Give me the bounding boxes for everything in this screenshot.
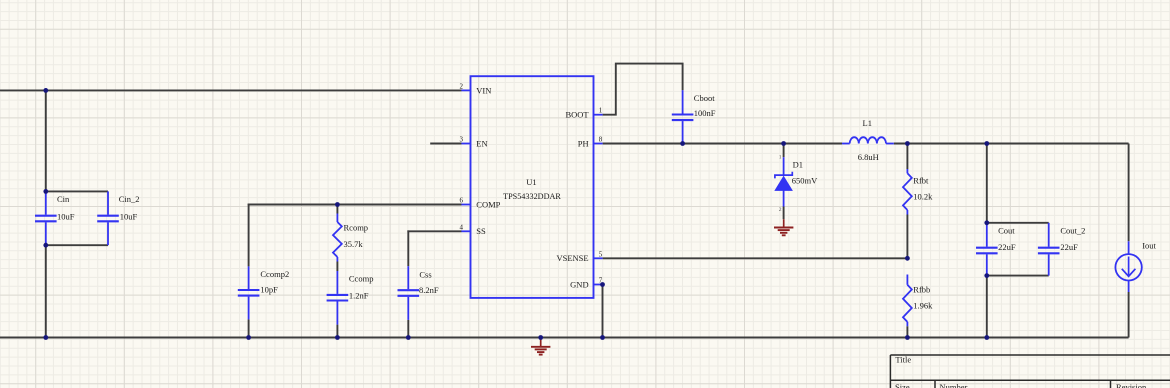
junction Ccomp gnd bbox=[335, 335, 340, 340]
svg-text:VIN: VIN bbox=[476, 85, 491, 95]
svg-text:Size: Size bbox=[895, 382, 910, 388]
svg-text:Css: Css bbox=[419, 270, 431, 280]
junction Cin bottom bbox=[43, 243, 48, 248]
wire EN wire bbox=[430, 143, 461, 145]
svg-text:2: 2 bbox=[779, 207, 782, 213]
svg-text:10uF: 10uF bbox=[57, 211, 75, 221]
junction Cout gnd bbox=[984, 335, 989, 340]
pin 6 COMP bbox=[460, 197, 501, 210]
svg-text:1: 1 bbox=[599, 107, 603, 115]
capacitor Cin_2 bbox=[97, 191, 139, 245]
Iout top wire bbox=[1128, 144, 1130, 242]
wire VIN input rail bbox=[0, 89, 462, 91]
svg-text:VSENSE: VSENSE bbox=[556, 253, 588, 263]
capacitor Ccomp bbox=[327, 271, 374, 325]
junction Cin top bbox=[43, 189, 48, 194]
wire Cout top link bbox=[987, 222, 1049, 224]
ground D1 ground bbox=[774, 219, 793, 235]
svg-text:Iout: Iout bbox=[1142, 240, 1156, 250]
pin 8 PH bbox=[578, 136, 603, 149]
wire Rfbt top stub bbox=[906, 144, 908, 170]
wire Rfbb bottom wire bbox=[906, 326, 908, 337]
wire PH rail right bbox=[894, 143, 1129, 145]
svg-text:10pF: 10pF bbox=[260, 284, 278, 294]
svg-text:Ccomp2: Ccomp2 bbox=[260, 269, 289, 279]
capacitor Cin bbox=[35, 191, 75, 245]
resistor Rfbb bbox=[903, 275, 933, 327]
wire PH rail left bbox=[603, 143, 842, 145]
svg-text:Cin: Cin bbox=[57, 194, 70, 204]
svg-text:COMP: COMP bbox=[476, 199, 500, 209]
svg-text:22uF: 22uF bbox=[998, 242, 1016, 252]
svg-text:L1: L1 bbox=[863, 118, 872, 128]
wire GND drop bbox=[602, 285, 604, 338]
wire VSENSE wire bbox=[603, 257, 908, 259]
svg-text:GND: GND bbox=[570, 279, 588, 289]
wire Cout bottom link bbox=[987, 275, 1049, 277]
svg-text:Rfbb: Rfbb bbox=[913, 284, 930, 294]
ground rail ground bbox=[531, 339, 550, 355]
svg-text:BOOT: BOOT bbox=[565, 110, 589, 120]
svg-text:Number: Number bbox=[940, 382, 968, 388]
junction Css gnd bbox=[406, 335, 411, 340]
wire Ccomp bottom wire bbox=[336, 325, 338, 338]
capacitor Cout bbox=[976, 224, 1016, 276]
junction D1-PH bbox=[781, 141, 786, 146]
svg-text:Ccomp: Ccomp bbox=[349, 274, 374, 284]
diode D1 650mV schottky bbox=[775, 155, 818, 214]
wire SS drop bbox=[407, 230, 409, 266]
junction Rcomp tap bbox=[335, 202, 340, 207]
junction Cout-PH bbox=[984, 141, 989, 146]
inductor L1 6.8uH bbox=[842, 118, 894, 162]
junction rail gnd sym bbox=[538, 335, 543, 340]
wire D1 top stub bbox=[783, 144, 785, 158]
wire input drop vertical bbox=[45, 90, 47, 191]
junction Cout top bbox=[984, 220, 989, 225]
svg-text:8.2nF: 8.2nF bbox=[419, 285, 439, 295]
svg-text:EN: EN bbox=[476, 138, 487, 148]
svg-text:3: 3 bbox=[460, 136, 464, 144]
wire Rfbt-VSENSE link bbox=[906, 215, 908, 259]
Iout bottom wire bbox=[1128, 292, 1130, 338]
junction Rfbb gnd bbox=[905, 335, 910, 340]
junction Ccomp2 gnd bbox=[246, 335, 251, 340]
svg-text:Title: Title bbox=[895, 355, 911, 365]
svg-text:6: 6 bbox=[460, 197, 464, 205]
wire D1 bottom stub bbox=[783, 207, 785, 220]
wire SS wire bbox=[407, 230, 461, 232]
junction Cout bottom bbox=[984, 273, 989, 278]
svg-text:5: 5 bbox=[599, 250, 603, 258]
wire Cout branch drop bbox=[986, 144, 988, 223]
svg-text:22uF: 22uF bbox=[1060, 242, 1078, 252]
svg-text:10.2k: 10.2k bbox=[913, 192, 933, 202]
wire Css bottom wire bbox=[407, 320, 409, 338]
svg-text:4: 4 bbox=[460, 223, 464, 231]
svg-text:2: 2 bbox=[460, 82, 464, 90]
pin 3 EN bbox=[460, 136, 488, 149]
op-amp U1 TPS54332DDAR body bbox=[471, 76, 594, 298]
junction GND rail bbox=[600, 335, 605, 340]
wire ground rail bbox=[0, 337, 1129, 339]
wire Cin bottom link bbox=[46, 244, 108, 246]
svg-text:1: 1 bbox=[779, 155, 782, 161]
wire input ground drop bbox=[45, 245, 47, 337]
svg-text:100nF: 100nF bbox=[694, 108, 716, 118]
junction VSENSE tap bbox=[905, 256, 910, 261]
wire Rcomp-Ccomp link bbox=[336, 262, 338, 272]
svg-text:TPS54332DDAR: TPS54332DDAR bbox=[503, 192, 561, 201]
junction input tap bbox=[43, 88, 48, 93]
svg-text:Cout: Cout bbox=[998, 225, 1015, 235]
svg-text:8: 8 bbox=[599, 136, 603, 144]
svg-text:D1: D1 bbox=[793, 160, 803, 170]
wire Cin top link bbox=[46, 190, 108, 192]
pin 2 VIN bbox=[460, 82, 492, 95]
svg-text:Rcomp: Rcomp bbox=[344, 222, 369, 232]
svg-text:10uF: 10uF bbox=[120, 211, 138, 221]
title block bbox=[890, 355, 1170, 388]
svg-text:35.7k: 35.7k bbox=[344, 239, 364, 249]
junction L1 out bbox=[905, 141, 910, 146]
svg-text:Revision: Revision bbox=[1116, 382, 1147, 388]
svg-text:650mV: 650mV bbox=[792, 175, 818, 185]
svg-text:Rfbt: Rfbt bbox=[913, 175, 929, 185]
wire Ccomp2 bottom wire bbox=[248, 319, 250, 337]
junction GND pin bbox=[600, 282, 605, 287]
resistor Rfbt bbox=[903, 169, 933, 215]
resistor Rcomp bbox=[333, 214, 368, 262]
capacitor Ccomp2 bbox=[238, 266, 289, 319]
svg-text:Cboot: Cboot bbox=[694, 93, 715, 103]
wire Rcomp stub bbox=[336, 205, 338, 214]
pin 4 SS bbox=[460, 223, 487, 236]
svg-text:PH: PH bbox=[578, 138, 589, 148]
svg-text:1.2nF: 1.2nF bbox=[349, 290, 369, 300]
pin 1 BOOT bbox=[565, 107, 602, 120]
BOOT wire path bbox=[603, 64, 683, 115]
junction Cboot-PH bbox=[680, 141, 685, 146]
svg-text:SS: SS bbox=[476, 226, 486, 236]
capacitor Css bbox=[398, 266, 439, 320]
wire COMP wire bbox=[248, 204, 462, 206]
wire Cout ground wire bbox=[986, 276, 988, 338]
svg-text:U1: U1 bbox=[526, 177, 536, 187]
svg-text:6.8uH: 6.8uH bbox=[858, 152, 879, 162]
capacitor Cout_2 bbox=[1038, 223, 1086, 276]
svg-text:1.96k: 1.96k bbox=[913, 301, 933, 311]
svg-text:Cout_2: Cout_2 bbox=[1060, 225, 1085, 235]
svg-text:Cin_2: Cin_2 bbox=[119, 194, 140, 204]
pin 5 VSENSE bbox=[556, 250, 602, 263]
junction input gnd bbox=[43, 335, 48, 340]
current source Iout bbox=[1115, 240, 1156, 292]
capacitor Cboot bbox=[672, 90, 716, 143]
pin 7 GND bbox=[570, 277, 603, 290]
wire Ccomp2 drop bbox=[248, 204, 250, 267]
